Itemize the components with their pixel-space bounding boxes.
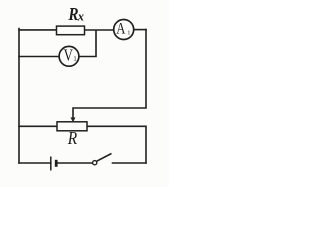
- svg-text:1: 1: [73, 55, 77, 63]
- svg-text:V: V: [64, 47, 74, 65]
- svg-text:x: x: [77, 9, 84, 23]
- svg-text:A: A: [116, 20, 126, 37]
- svg-text:1: 1: [127, 30, 130, 37]
- svg-text:R: R: [67, 128, 77, 148]
